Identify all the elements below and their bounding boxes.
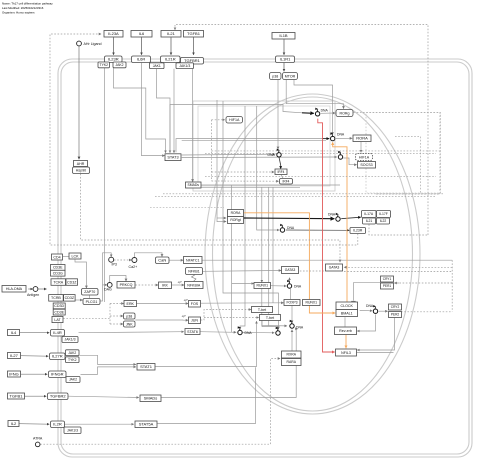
svg-text:SMADs: SMADs xyxy=(188,183,200,187)
svg-text:IL4: IL4 xyxy=(11,330,17,335)
svg-text:FOXP3: FOXP3 xyxy=(286,301,297,305)
svg-text:IL23A: IL23A xyxy=(108,31,119,36)
svg-text:STAT1: STAT1 xyxy=(140,364,153,369)
svg-text:Ca2+: Ca2+ xyxy=(129,265,138,269)
svg-text:HIF1A: HIF1A xyxy=(359,155,370,159)
svg-text:NFKB1: NFKB1 xyxy=(188,269,200,273)
svg-text:TCRB: TCRB xyxy=(51,296,61,300)
svg-text:IL6: IL6 xyxy=(139,31,145,36)
svg-text:CaN: CaN xyxy=(158,258,166,263)
svg-text:SOCS3: SOCS3 xyxy=(360,163,372,167)
svg-text:RORg: RORg xyxy=(340,111,350,115)
svg-text:T-bet: T-bet xyxy=(266,316,274,320)
svg-text:IL21R: IL21R xyxy=(165,57,176,62)
svg-text:BMAL1: BMAL1 xyxy=(341,311,353,315)
svg-text:JNK: JNK xyxy=(126,322,133,326)
svg-text:CD3E: CD3E xyxy=(53,266,63,270)
svg-text:RUNX1: RUNX1 xyxy=(257,284,269,288)
svg-text:JAK1/3: JAK1/3 xyxy=(65,338,76,342)
svg-text:DNA: DNA xyxy=(321,109,329,113)
svg-text:CD4: CD4 xyxy=(53,255,60,259)
svg-text:TGFB1: TGFB1 xyxy=(187,31,201,36)
svg-text:ERK: ERK xyxy=(127,302,135,306)
svg-text:GATA3: GATA3 xyxy=(285,268,296,272)
svg-text:IL21: IL21 xyxy=(366,219,373,223)
svg-text:IL22: IL22 xyxy=(380,219,387,223)
svg-text:GATA3: GATA3 xyxy=(329,266,340,270)
svg-text:Organism: Homo sapiens: Organism: Homo sapiens xyxy=(2,11,35,15)
svg-text:ATRA: ATRA xyxy=(33,437,43,441)
svg-text:DNA: DNA xyxy=(328,213,336,217)
svg-text:PER2: PER2 xyxy=(391,313,400,317)
svg-text:ZAP70: ZAP70 xyxy=(84,290,95,294)
svg-text:JAK2: JAK2 xyxy=(69,378,77,382)
svg-text:STAT3: STAT3 xyxy=(167,156,178,160)
svg-text:PLCG1: PLCG1 xyxy=(86,300,98,304)
svg-text:T-bet: T-bet xyxy=(258,308,266,312)
svg-text:p38: p38 xyxy=(126,314,132,318)
svg-text:CD3G: CD3G xyxy=(53,271,63,275)
svg-text:RXRA: RXRA xyxy=(287,353,297,357)
svg-text:IL17F: IL17F xyxy=(379,212,388,216)
svg-text:IRF4: IRF4 xyxy=(283,179,290,183)
svg-text:JAK1: JAK1 xyxy=(153,64,161,68)
svg-text:TYK2: TYK2 xyxy=(68,358,77,362)
svg-text:STAT6: STAT6 xyxy=(187,330,198,334)
svg-text:TCRA: TCRA xyxy=(53,280,63,284)
svg-text:PRKCQ: PRKCQ xyxy=(120,283,133,287)
svg-text:RUNX1: RUNX1 xyxy=(306,301,318,305)
svg-text:RORA: RORA xyxy=(356,136,368,141)
svg-text:RARA: RARA xyxy=(287,360,297,364)
svg-text:CD3D: CD3D xyxy=(54,304,64,308)
svg-text:IFNGR: IFNGR xyxy=(51,372,64,377)
svg-text:NFKBIA: NFKBIA xyxy=(187,283,201,287)
svg-text:DNA: DNA xyxy=(294,285,302,289)
svg-text:HIF1A: HIF1A xyxy=(229,118,240,122)
svg-text:IFNG: IFNG xyxy=(9,371,19,376)
svg-text:IP3: IP3 xyxy=(112,262,117,266)
svg-text:DNA: DNA xyxy=(366,304,374,308)
svg-text:SMADs: SMADs xyxy=(144,396,158,401)
svg-text:RORA: RORA xyxy=(231,211,242,215)
svg-text:CD3E: CD3E xyxy=(54,310,64,314)
svg-text:DNA: DNA xyxy=(337,133,345,137)
svg-text:LAT: LAT xyxy=(54,318,61,322)
svg-text:Rev-erb: Rev-erb xyxy=(339,329,352,333)
svg-text:IL1R1: IL1R1 xyxy=(280,57,291,62)
svg-text:DNA: DNA xyxy=(287,226,295,230)
svg-text:Hsp90: Hsp90 xyxy=(76,169,86,173)
svg-text:Antigen: Antigen xyxy=(27,293,39,297)
svg-text:TYK2: TYK2 xyxy=(100,63,109,67)
svg-text:IL21: IL21 xyxy=(167,31,176,36)
svg-text:CD3Z: CD3Z xyxy=(67,280,77,284)
svg-text:IL23R: IL23R xyxy=(353,229,363,233)
svg-text:IL2: IL2 xyxy=(11,421,17,426)
svg-text:CRY1: CRY1 xyxy=(383,277,392,281)
svg-text:IL4R: IL4R xyxy=(53,330,62,335)
svg-text:IL1B: IL1B xyxy=(279,33,288,38)
svg-text:IL17A: IL17A xyxy=(364,212,374,216)
svg-text:FOS: FOS xyxy=(191,302,199,306)
svg-text:AHr Ligand: AHr Ligand xyxy=(84,42,102,46)
svg-text:DNA: DNA xyxy=(245,331,253,335)
svg-text:RORgt: RORgt xyxy=(230,218,240,222)
svg-text:CRY2: CRY2 xyxy=(391,305,400,309)
svg-text:HLA-DMA: HLA-DMA xyxy=(6,287,23,291)
svg-text:DNA: DNA xyxy=(296,326,304,330)
svg-text:IKK: IKK xyxy=(162,284,168,288)
svg-text:IL27R: IL27R xyxy=(52,354,63,359)
svg-text:TGFBR2: TGFBR2 xyxy=(50,394,67,399)
svg-text:IRF4: IRF4 xyxy=(278,170,285,174)
svg-text:DAG: DAG xyxy=(104,288,112,292)
svg-text:IL2R: IL2R xyxy=(53,422,62,427)
svg-text:PER1: PER1 xyxy=(383,284,392,288)
svg-text:CD3Z: CD3Z xyxy=(65,296,75,300)
svg-text:p38: p38 xyxy=(272,74,278,78)
svg-text:NFATC1: NFATC1 xyxy=(186,258,200,262)
svg-text:DNA: DNA xyxy=(268,153,276,157)
svg-text:NFIL3: NFIL3 xyxy=(341,351,351,355)
svg-text:CLOCK: CLOCK xyxy=(341,304,354,308)
svg-text:IL23R: IL23R xyxy=(108,57,119,62)
svg-text:JAK1/3: JAK1/3 xyxy=(67,428,78,432)
svg-text:LCK: LCK xyxy=(72,254,80,258)
svg-text:IL6R: IL6R xyxy=(137,57,146,62)
svg-text:JAK1/3: JAK1/3 xyxy=(179,64,190,68)
svg-text:JAK2: JAK2 xyxy=(115,63,123,67)
svg-text:MTOR: MTOR xyxy=(285,74,296,78)
svg-text:IL27: IL27 xyxy=(10,353,19,358)
svg-text:TGFB1: TGFB1 xyxy=(10,393,24,398)
svg-text:Name: Th17 cell differentiatio: Name: Th17 cell differentiation pathway xyxy=(2,1,53,5)
svg-text:JUN: JUN xyxy=(191,319,198,323)
svg-text:Last Modified: 20250102123316: Last Modified: 20250102123316 xyxy=(2,6,44,10)
svg-text:STAT5A: STAT5A xyxy=(139,422,154,427)
svg-text:JAK2: JAK2 xyxy=(68,351,76,355)
svg-text:AHR: AHR xyxy=(77,162,85,166)
